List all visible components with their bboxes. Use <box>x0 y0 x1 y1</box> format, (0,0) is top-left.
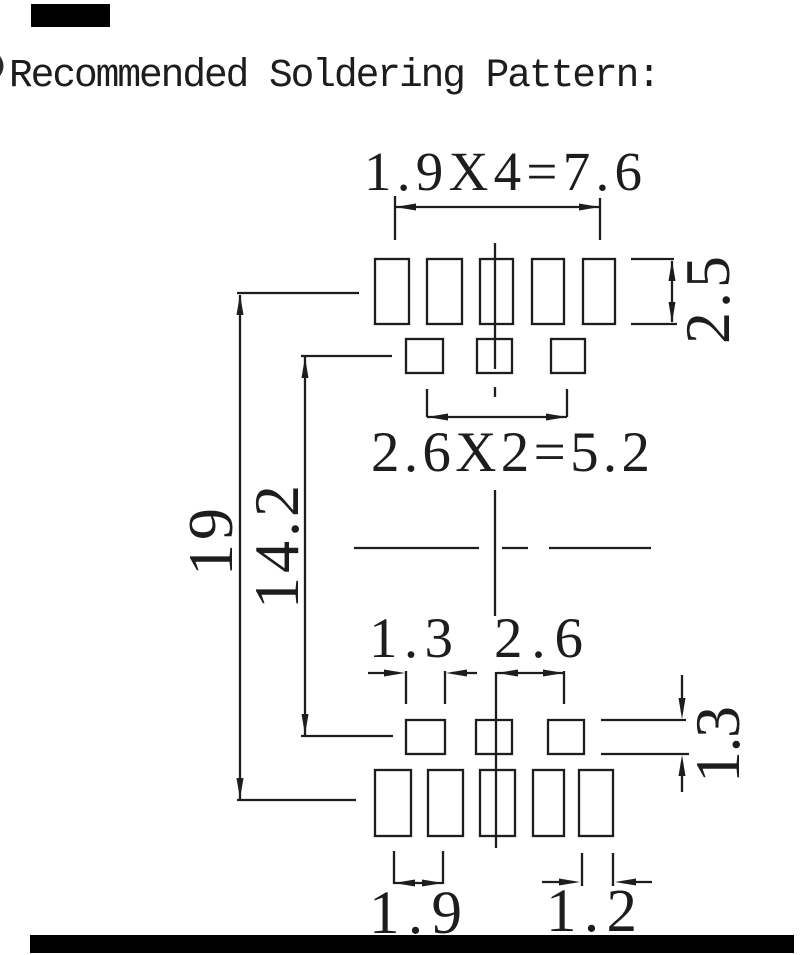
pad top row 3 <box>480 259 513 324</box>
svg-text:1.9: 1.9 <box>369 880 462 947</box>
square top row 2 <box>477 339 512 373</box>
dim 2.6 lower arrowhead right <box>543 670 564 677</box>
dim 7.6 arrowhead left <box>395 204 416 211</box>
dim 14.2 arrowhead up <box>302 357 309 378</box>
dim 1.3 right arrowhead up <box>679 755 686 776</box>
svg-text:Recommended Soldering Pattern:: Recommended Soldering Pattern: <box>9 53 661 98</box>
dim 2.5 arrowhead down <box>669 302 676 323</box>
dim 1.9 bottom arrowhead left <box>394 880 415 887</box>
dim 5.2 dimension line <box>427 416 567 418</box>
dim 14.2 extension line top <box>301 355 392 357</box>
svg-text:1.9X4=7.6: 1.9X4=7.6 <box>364 141 642 202</box>
square bottom row 1 <box>406 720 445 754</box>
dim 1.3 right extension stub bottom <box>601 753 689 755</box>
dim 1.3 lower left leader line <box>368 672 398 674</box>
dim 1.2 bottom extension tick left <box>581 853 583 886</box>
dim 2.5 extension stub bottom <box>631 323 677 325</box>
pad top row 4 <box>532 259 564 324</box>
dim 2.5 arrowhead up <box>669 260 676 281</box>
dim 5.2 extension tick right <box>566 389 568 417</box>
dim 7.6 extension line right <box>599 198 601 240</box>
dim 1.3 lower arrowhead right-pointing <box>384 670 405 677</box>
center line short dash below squares <box>494 387 496 397</box>
bottom black bar <box>30 935 794 953</box>
pad top row 2 <box>427 259 462 324</box>
crosshair horizontal left segment <box>354 547 479 549</box>
svg-text:2.6: 2.6 <box>494 607 583 670</box>
square top row 3 <box>551 339 585 373</box>
pad top row 1 <box>375 259 409 324</box>
dim 2.6 lower extension tick right <box>563 671 565 704</box>
center line lower vertical <box>495 672 497 848</box>
square bottom row 3 <box>548 720 584 754</box>
dim 7.6 extension line left <box>394 196 396 240</box>
dim 19 arrowhead up <box>237 294 244 315</box>
dim 1.2 bottom right leader line <box>622 881 652 883</box>
dim 1.3 right upper leader line <box>681 675 683 712</box>
crosshair horizontal right segment <box>549 547 651 549</box>
svg-text:1.2: 1.2 <box>546 878 637 945</box>
dim 1.3 lower middle leader line <box>452 672 477 674</box>
pad bottom row 3 <box>480 770 515 836</box>
dim 1.9 bottom extension tick right <box>442 851 444 884</box>
pad bottom row 5 <box>579 770 613 836</box>
dim 1.9 bottom arrowhead right <box>422 880 443 887</box>
dim 5.2 arrowhead left <box>427 414 448 421</box>
pad bottom row 2 <box>428 770 463 836</box>
svg-text:14.2: 14.2 <box>241 485 312 609</box>
dim 19 arrowhead down <box>237 778 244 799</box>
dim 1.9 bottom dimension line <box>394 882 443 884</box>
dim 1.3 right lower leader line <box>681 762 683 792</box>
dim 1.9 bottom extension tick left <box>393 851 395 884</box>
dim 1.3 lower extension tick right <box>444 671 446 704</box>
dim 1.3 lower arrowhead left-pointing <box>446 670 467 677</box>
square top row 1 <box>406 339 443 373</box>
dim 1.3 lower extension tick left <box>405 671 407 704</box>
dim 1.2 bottom arrowhead right-pointing <box>559 879 580 886</box>
dim 7.6 arrowhead right <box>579 204 600 211</box>
dim 1.3 right extension stub top <box>601 719 686 721</box>
svg-text:2.6X2=5.2: 2.6X2=5.2 <box>371 421 650 484</box>
dim 19 dimension line <box>239 295 241 799</box>
dim 14.2 arrowhead down <box>302 714 309 735</box>
dim 1.2 bottom arrowhead left-pointing <box>615 879 636 886</box>
dim 14.2 dimension line <box>304 357 306 735</box>
dim 19 extension line top <box>237 292 359 294</box>
dim 2.6 lower dimension line <box>497 672 564 674</box>
crosshair horizontal middle dash <box>502 547 528 549</box>
svg-text:1.3: 1.3 <box>682 706 753 783</box>
pad top row 5 <box>583 259 615 324</box>
dim 7.6 dimension line <box>395 206 600 208</box>
dim 1.3 right arrowhead down <box>679 698 686 719</box>
svg-text:1.3: 1.3 <box>369 607 453 670</box>
dim 14.2 extension line bottom <box>301 735 393 737</box>
top-left black patch <box>31 4 110 27</box>
square bottom row 2 <box>476 720 512 754</box>
center line upper vertical <box>494 243 496 369</box>
pad bottom row 4 <box>533 770 564 836</box>
dim 1.2 bottom extension tick right <box>612 853 614 886</box>
dim 5.2 extension tick left <box>426 389 428 417</box>
dim 5.2 arrowhead right <box>546 414 567 421</box>
dim 2.6 lower arrowhead left <box>497 670 518 677</box>
dim 2.5 extension stub top <box>631 258 674 260</box>
svg-text:2.5: 2.5 <box>672 256 743 344</box>
center line middle vertical <box>494 490 496 616</box>
dim 2.5 dimension line <box>671 261 673 322</box>
pad bottom row 1 <box>375 770 411 836</box>
dim 1.2 bottom left leader line <box>542 881 573 883</box>
title clipped bullet glyph at left edge <box>0 56 4 76</box>
dim 19 extension line bottom <box>237 799 356 801</box>
